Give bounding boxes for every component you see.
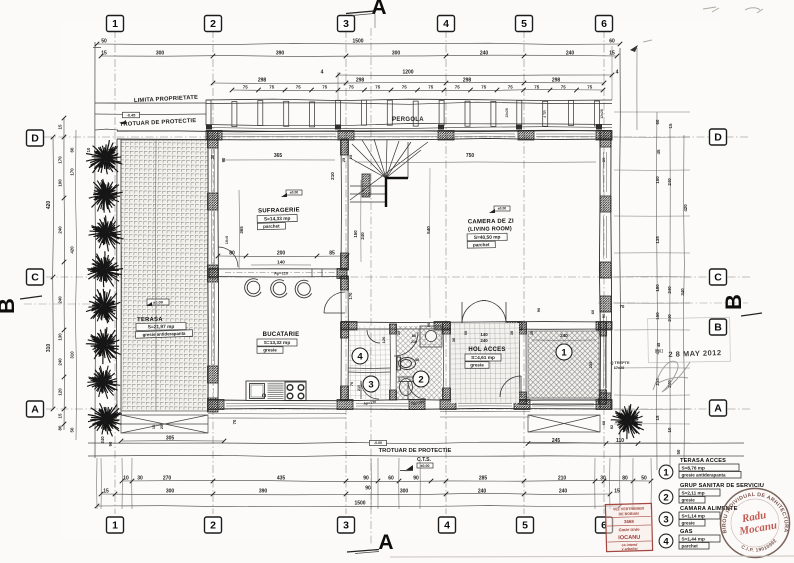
trotuar bottom band line2 [88,455,744,456]
tree L3 [85,211,129,255]
pencil scribbles top right [643,7,763,42]
svg-text:B: B [0,298,19,314]
left dim chain inner [76,130,77,440]
svg-text:C: C [714,272,722,284]
level box above trotuar bottom [370,440,387,445]
svg-text:12x28: 12x28 [600,109,604,119]
grid row D [44,136,750,138]
faint scan line bottom [390,556,794,557]
trotuar bottom band line1 [88,442,744,444]
svg-text:6: 6 [601,18,607,30]
property line right vertical [620,48,621,458]
svg-text:1500: 1500 [352,39,363,45]
terasa acces floor hatch [528,331,599,398]
svg-text:15: 15 [58,413,63,418]
svg-text:75: 75 [375,85,380,90]
svg-text:C.T.S.: C.T.S. [417,457,432,463]
svg-text:245: 245 [552,438,561,444]
property line left vertical [94,42,97,458]
svg-text:BUCATARIE: BUCATARIE [263,332,300,338]
hol acces floor hatch [451,323,519,403]
terrace joint line [155,140,157,411]
grid row A [46,408,750,410]
svg-text:parchet: parchet [682,544,699,549]
room2 top door [394,332,418,356]
svg-text:420: 420 [70,246,75,254]
bubble 3 bottom [338,517,355,533]
living south wall [341,322,612,323]
svg-text:TERASA: TERASA [137,317,163,323]
svg-text:v arbeitst: v arbeitst [622,547,639,551]
right wall window lines [602,152,604,192]
svg-text:gresie: gresie [682,498,696,503]
bubble 4 top [438,16,455,32]
bubble D left [27,130,44,146]
svg-text:240: 240 [667,286,672,294]
svg-text:75: 75 [269,85,274,90]
svg-text:gresie antiderapanta: gresie antiderapanta [682,473,727,478]
svg-text:SUFRAGERIE: SUFRAGERIE [258,207,300,214]
sink bowl [250,384,265,399]
bubble 4 bottom [439,517,456,533]
svg-text:S=8,76 mp: S=8,76 mp [682,465,705,470]
svg-text:170: 170 [348,292,353,300]
date stamp box [648,317,731,362]
svg-text:240: 240 [58,358,63,366]
kitchen counter [246,381,306,401]
bubble 5 bottom [517,517,534,533]
tree L1 [79,134,130,185]
svg-text:75: 75 [508,85,513,90]
svg-text:1: 1 [112,520,118,532]
tree L6 [81,321,130,370]
corner sink room2 top [420,326,442,347]
step lines under hol entrance [440,410,530,412]
svg-text:45: 45 [415,358,419,362]
svg-text:298: 298 [552,78,561,84]
label LIMITA PROPRIETATE [134,95,198,104]
svg-text:S=1,14 mp: S=1,14 mp [682,513,705,518]
svg-text:75: 75 [296,85,301,90]
grid line 1 [115,30,604,514]
bubble 6 top [596,16,613,32]
hol east wall [518,322,521,404]
top dim chain 5 (75s) [232,90,603,91]
tree L4 [86,250,124,288]
svg-text:298: 298 [356,78,365,84]
right top arrow [630,45,638,52]
svg-text:60: 60 [602,421,606,425]
bar half-wall sufragerie/bucatarie [208,268,347,270]
svg-text:70: 70 [232,419,237,424]
svg-text:A: A [371,0,386,19]
svg-text:85: 85 [329,251,335,257]
entrance double door [462,300,506,323]
label SUFRAGERIE [257,207,300,229]
svg-text:S=14,33 mp: S=14,33 mp [264,216,291,223]
terrace floor hatch TERASA [121,140,208,411]
top dim chain 1 [97,43,620,44]
svg-text:25: 25 [341,157,346,162]
svg-text:310: 310 [46,344,52,353]
svg-text:50: 50 [70,427,75,432]
svg-text:1: 1 [112,18,118,30]
svg-text:4 TR: 4 TR [543,110,547,118]
svg-text:310: 310 [70,351,75,359]
right exterior wall [599,131,600,409]
svg-text:120: 120 [381,336,386,343]
wc room2 [399,377,413,396]
svg-text:4: 4 [616,70,619,76]
svg-text:CAMERA DE ZI: CAMERA DE ZI [468,219,514,226]
bubble 3 top [338,16,355,32]
terasa acces east wall [598,322,600,404]
svg-text:340: 340 [680,288,685,296]
svg-text:80: 80 [622,476,628,482]
ext line x612 [611,46,613,100]
svg-text:±0.00: ±0.00 [153,299,164,304]
svg-text:D: D [714,132,722,144]
svg-text:gresie: gresie [682,521,696,526]
dim 305 under steps [121,440,224,442]
svg-text:S=1,44 mp: S=1,44 mp [682,536,705,541]
svg-text:45: 45 [656,149,661,154]
right dim ext lines [614,111,690,113]
tree bottom right [606,398,653,445]
svg-text:S=2,11 mp: S=2,11 mp [682,490,705,495]
left dim chain outer [53,137,54,409]
svg-text:(LIVING ROOM): (LIVING ROOM) [468,226,512,233]
svg-text:270: 270 [163,476,172,482]
svg-text:75: 75 [349,85,354,90]
svg-text:305: 305 [166,436,175,442]
svg-text:30: 30 [601,157,606,162]
bottom dim chain 2 [101,493,610,495]
pergola anchor blocks [206,125,212,130]
rect stamp red [605,503,652,551]
svg-text:180: 180 [655,284,660,292]
bottom wall pilasters [208,400,224,410]
bubble 5 top [516,16,533,32]
svg-text:VEL VERTRIEBER: VEL VERTRIEBER [613,507,645,512]
bubble 1 top [107,16,124,32]
bubble C left [27,269,44,285]
svg-text:30: 30 [600,476,606,482]
svg-text:TROTUAR DE PROTECTIE: TROTUAR DE PROTECTIE [379,448,452,454]
svg-text:90: 90 [221,157,226,162]
terrace left border [116,139,119,415]
svg-text:540: 540 [426,226,431,234]
svg-text:240: 240 [58,296,63,304]
svg-text:170: 170 [58,156,63,164]
section line B-B left [24,303,120,305]
CTS triangle mark [406,465,413,470]
svg-text:90: 90 [413,476,419,482]
left wall window lines [211,149,213,192]
svg-text:300: 300 [156,51,165,57]
svg-text:80: 80 [58,425,63,430]
label TROTUAR DE PROTECTIE top [120,118,197,128]
svg-text:B: B [721,294,746,310]
svg-text:90: 90 [363,476,369,482]
pergola bottom chord [206,124,612,126]
svg-text:PERGOLA: PERGOLA [392,117,424,123]
svg-text:S=40,50 mp: S=40,50 mp [474,235,501,241]
svg-text:D: D [31,133,39,145]
svg-text:75: 75 [402,85,407,90]
bubble A left [27,401,44,417]
svg-text:10: 10 [667,427,672,432]
bubble 2 bottom [205,517,222,533]
svg-text:Gmbr Urde: Gmbr Urde [619,527,641,533]
svg-text:10: 10 [86,147,91,152]
svg-text:1200: 1200 [402,70,413,76]
svg-text:3: 3 [368,379,373,390]
svg-text:365: 365 [239,226,244,234]
svg-text:2: 2 [210,520,216,532]
svg-text:gresie: gresie [470,363,484,368]
svg-text:5: 5 [522,520,528,532]
svg-text:17x28: 17x28 [614,366,625,370]
svg-text:240: 240 [559,489,568,495]
svg-text:210: 210 [558,476,567,482]
top dim chain 3 [338,74,612,77]
svg-text:parchet: parchet [473,242,490,247]
pergola posts [206,100,600,127]
bubble 6 bottom [596,517,613,533]
tree L5 [80,283,126,329]
svg-text:12x28: 12x28 [505,108,509,118]
stair newel column [362,174,370,197]
svg-text:75: 75 [481,85,486,90]
kitchen door [324,292,345,313]
svg-text:240: 240 [667,178,672,186]
svg-text:90: 90 [365,486,371,492]
svg-text:200: 200 [277,251,286,257]
svg-text:HOL ACCES: HOL ACCES [468,347,505,353]
svg-text:390: 390 [259,489,268,495]
svg-text:15: 15 [609,51,615,57]
svg-text:120: 120 [58,388,63,396]
svg-text:30: 30 [510,331,514,335]
svg-text:1: 1 [663,467,669,478]
svg-text:70: 70 [620,304,625,309]
level box +0.45 top [123,112,140,118]
terasa acces south wall [526,397,606,399]
svg-text:50: 50 [101,39,107,45]
left exterior wall [207,131,210,411]
svg-text:4: 4 [443,18,449,30]
section line A-A [370,28,372,546]
svg-text:25: 25 [160,425,164,429]
label CAMERA DE ZI [467,219,515,249]
svg-text:150: 150 [655,176,660,184]
sufragerie level mark [286,190,302,195]
svg-text:2: 2 [210,18,216,30]
svg-text:240: 240 [478,489,487,495]
svg-text:-0.45: -0.45 [127,113,136,117]
svg-text:5: 5 [521,18,527,30]
svg-text:90: 90 [536,307,541,312]
svg-text:70: 70 [349,381,354,386]
svg-text:-0.00: -0.00 [374,441,382,445]
stairs winder [350,139,428,202]
svg-text:210: 210 [330,172,335,180]
svg-text:4: 4 [357,351,363,362]
section line B-B right [598,302,748,304]
svg-text:Ap=110: Ap=110 [274,271,289,276]
svg-text:50: 50 [676,449,681,454]
svg-text:240: 240 [566,51,575,57]
signature squiggle [653,361,690,392]
bottom dim chain 1 [122,480,651,481]
round stamp Radu Mocanu [721,489,790,558]
bubble D right [710,129,727,145]
svg-text:15: 15 [58,124,63,129]
svg-text:170: 170 [70,168,75,176]
top wall pilasters [206,131,222,141]
svg-text:4: 4 [444,520,450,532]
svg-text:30: 30 [210,154,215,159]
svg-text:140: 140 [480,332,488,337]
svg-text:75: 75 [243,85,248,90]
svg-text:135: 135 [655,236,660,244]
svg-text:285: 285 [479,476,488,482]
terasa acces steps X [528,415,600,432]
bottom extension lines [96,458,98,509]
kitchen east wall [340,276,342,400]
svg-text:90: 90 [108,441,113,446]
tree L7 [85,362,123,400]
room4 top door [367,330,380,343]
svg-text:25: 25 [348,154,353,159]
svg-text:240: 240 [100,436,105,444]
bottom dim chain 3 [97,506,620,507]
step lines under bottom wall left [208,413,346,415]
svg-text:3668: 3668 [624,519,634,524]
svg-text:±0.00: ±0.00 [290,191,299,195]
bar counter stools [245,279,312,298]
interior dims kitchen [218,255,347,258]
svg-text:75: 75 [534,85,539,90]
svg-text:130: 130 [58,333,63,341]
svg-text:300: 300 [400,489,409,495]
left wall axis dashed [213,140,215,399]
svg-text:75: 75 [587,85,592,90]
living level mark [494,206,510,211]
sufragerie east wall [340,139,343,270]
trotuar top band [95,113,206,116]
svg-text:240: 240 [480,51,489,57]
svg-text:240: 240 [480,338,488,343]
top wall window lines [222,133,336,135]
svg-text:30: 30 [530,331,534,335]
svg-text:15: 15 [103,489,109,495]
svg-text:15: 15 [668,123,673,128]
date stamp text [668,348,721,359]
svg-text:S=4,61 mp: S=4,61 mp [471,355,495,361]
svg-text:EXI: EXI [655,349,664,355]
svg-text:GAS: GAS [680,529,693,535]
stairs landing edge thick [386,178,408,207]
svg-text:TERASA ACCES: TERASA ACCES [680,458,726,464]
svg-text:240: 240 [58,226,63,234]
svg-text:75: 75 [455,85,460,90]
left wall pilasters [208,131,219,148]
partition rooms 4/3 [348,367,390,370]
svg-text:2: 2 [418,374,423,385]
svg-text:298: 298 [258,78,267,84]
svg-text:435: 435 [277,476,286,482]
svg-text:A: A [378,531,393,554]
bubble 1 bottom [107,517,124,533]
bubble A right [710,400,727,416]
bubble 2 top [205,16,222,32]
svg-text:100: 100 [58,179,63,187]
tree L8 [81,396,129,444]
top exterior wall [117,130,612,132]
svg-text:DE BOBIAN: DE BOBIAN [619,512,640,517]
svg-text:S=13,32 mp: S=13,32 mp [264,340,291,346]
svg-text:4: 4 [663,536,669,547]
svg-text:1: 1 [561,347,567,358]
svg-text:2: 2 [663,492,668,503]
svg-text:50: 50 [641,476,647,482]
room number circles [556,344,572,360]
svg-text:15: 15 [655,415,660,420]
bubble C right [710,269,727,285]
svg-text:60: 60 [388,476,394,482]
svg-text:15: 15 [152,425,156,429]
svg-text:10=0: 10=0 [225,236,229,245]
stove 4 burners [285,382,306,401]
svg-text:C: C [31,272,39,284]
grid row C [46,276,750,278]
svg-text:15: 15 [101,51,107,57]
tree L2 [85,175,128,218]
svg-text:210: 210 [357,385,361,391]
bubble B right [710,319,727,335]
svg-text:30: 30 [137,476,143,482]
svg-text:25: 25 [397,331,401,335]
svg-text:60: 60 [590,309,595,314]
svg-text:B: B [714,322,722,334]
svg-text:300: 300 [166,489,175,495]
svg-text:3: 3 [663,514,668,525]
right wall pilasters [600,131,611,147]
svg-text:60: 60 [70,147,75,152]
pergola top chord [206,99,612,101]
svg-text:gresie: gresie [263,348,277,353]
svg-text:240: 240 [560,333,568,338]
svg-text:A: A [714,403,722,415]
left dim chain mid [63,118,66,430]
top-left corner tick [93,46,101,48]
room3 door [361,381,379,399]
svg-text:298: 298 [463,78,472,84]
limita propietate line [95,102,206,104]
terrace bottom steps with X brace [121,415,208,433]
sink drainboard [268,383,284,398]
svg-text:420: 420 [683,204,688,212]
svg-text:140: 140 [277,260,285,265]
svg-text:2 8 MAY 2012: 2 8 MAY 2012 [668,348,721,359]
svg-text:parchet: parchet [263,224,280,229]
svg-text:S=21,97 mp: S=21,97 mp [148,324,175,330]
room divider wall (4/3 vs 2) [389,324,391,400]
top dim chain 4 (298) [213,82,604,83]
svg-text:45: 45 [656,342,661,347]
